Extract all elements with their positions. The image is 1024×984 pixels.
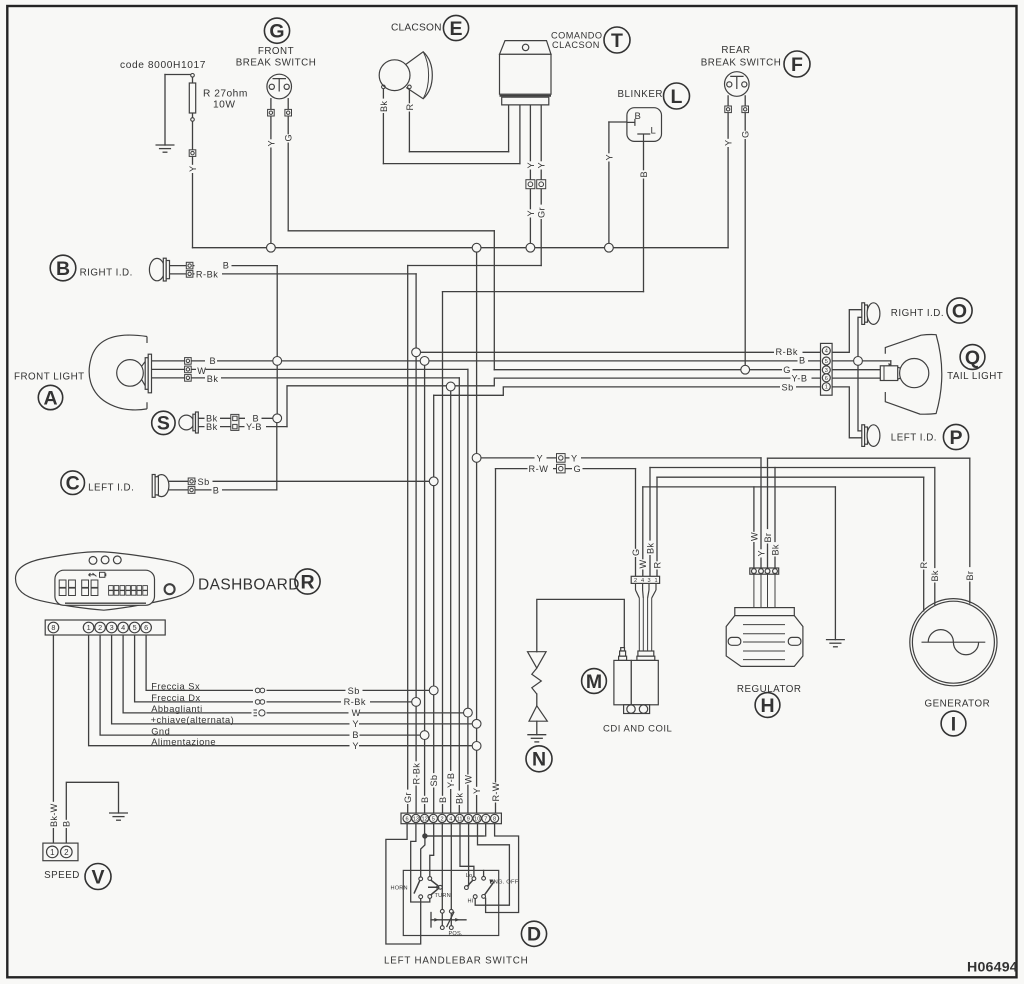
- svg-text:B: B: [223, 261, 230, 271]
- svg-text:Y-B: Y-B: [446, 773, 456, 788]
- svg-text:10W: 10W: [213, 100, 235, 111]
- svg-text:9: 9: [467, 817, 470, 823]
- svg-text:Sb: Sb: [348, 686, 360, 696]
- svg-text:Sb: Sb: [198, 477, 210, 487]
- svg-text:Gr: Gr: [537, 207, 547, 218]
- svg-text:4: 4: [449, 817, 452, 823]
- svg-text:T: T: [611, 30, 623, 52]
- svg-text:1: 1: [825, 385, 828, 391]
- svg-text:RIGHT I.D.: RIGHT I.D.: [80, 267, 133, 278]
- svg-text:10: 10: [474, 817, 480, 823]
- svg-text:Y-B: Y-B: [246, 422, 262, 432]
- svg-text:A: A: [43, 387, 57, 409]
- svg-text:W: W: [749, 532, 759, 541]
- svg-text:Bk-W: Bk-W: [49, 803, 59, 827]
- svg-text:+chiave(alternata): +chiave(alternata): [151, 715, 235, 725]
- svg-text:R: R: [652, 562, 662, 569]
- svg-text:R-Bk: R-Bk: [344, 697, 366, 707]
- svg-text:B: B: [352, 730, 359, 740]
- svg-text:LEFT I.D.: LEFT I.D.: [891, 433, 937, 444]
- svg-text:5: 5: [825, 359, 828, 365]
- svg-text:Freccia Dx: Freccia Dx: [151, 693, 200, 703]
- svg-text:L: L: [651, 126, 657, 137]
- svg-text:Y: Y: [537, 162, 547, 168]
- svg-text:POS.: POS.: [449, 931, 463, 937]
- svg-text:RIGHT I.D.: RIGHT I.D.: [891, 308, 944, 319]
- svg-text:Bk: Bk: [207, 374, 219, 384]
- svg-text:H: H: [760, 695, 774, 717]
- svg-text:LEFT HANDLEBAR SWITCH: LEFT HANDLEBAR SWITCH: [384, 956, 529, 967]
- svg-text:Gr: Gr: [403, 792, 413, 803]
- svg-text:Sb: Sb: [782, 383, 794, 393]
- svg-text:R: R: [919, 562, 929, 569]
- svg-text:Bk: Bk: [770, 544, 780, 555]
- svg-text:Bk: Bk: [930, 570, 940, 581]
- svg-text:R-Bk: R-Bk: [196, 270, 218, 280]
- svg-text:R 27ohm: R 27ohm: [203, 89, 248, 100]
- svg-text:Sb: Sb: [429, 775, 439, 787]
- svg-text:12: 12: [421, 817, 427, 823]
- svg-text:CLACSON: CLACSON: [552, 40, 600, 50]
- svg-text:Abbaglianti: Abbaglianti: [151, 704, 203, 714]
- svg-text:Freccia Sx: Freccia Sx: [151, 682, 200, 692]
- svg-text:Y: Y: [526, 210, 536, 216]
- svg-text:CLACSON: CLACSON: [391, 23, 442, 34]
- svg-text:W: W: [197, 366, 206, 376]
- svg-text:Bk: Bk: [645, 543, 655, 554]
- svg-text:W: W: [352, 708, 361, 718]
- svg-text:D: D: [527, 924, 541, 946]
- svg-text:5: 5: [432, 817, 435, 823]
- svg-text:C: C: [66, 473, 80, 495]
- svg-text:N: N: [532, 749, 546, 771]
- svg-text:Y: Y: [537, 453, 544, 463]
- svg-text:Bk: Bk: [379, 101, 389, 112]
- svg-text:Y: Y: [472, 788, 482, 794]
- svg-text:13: 13: [413, 817, 419, 823]
- svg-text:2: 2: [441, 817, 444, 823]
- svg-text:Y: Y: [724, 140, 734, 146]
- svg-text:S: S: [157, 413, 170, 435]
- svg-text:W: W: [638, 560, 648, 569]
- svg-text:G: G: [269, 21, 284, 43]
- svg-text:F: F: [791, 54, 803, 76]
- svg-text:7: 7: [484, 817, 487, 823]
- svg-text:G: G: [284, 134, 294, 141]
- svg-text:REAR: REAR: [721, 45, 750, 56]
- svg-text:G: G: [741, 131, 751, 138]
- svg-text:Y: Y: [352, 741, 359, 751]
- svg-text:Y: Y: [571, 453, 578, 463]
- svg-text:G: G: [783, 365, 791, 375]
- svg-text:4: 4: [121, 623, 125, 632]
- svg-text:Bk: Bk: [206, 422, 218, 432]
- svg-text:R: R: [405, 104, 415, 111]
- svg-text:2: 2: [98, 623, 102, 632]
- svg-text:3: 3: [110, 623, 114, 632]
- svg-text:G: G: [631, 549, 641, 556]
- svg-text:REGULATOR: REGULATOR: [737, 684, 802, 695]
- svg-text:E: E: [449, 18, 462, 40]
- svg-text:L: L: [671, 86, 683, 108]
- svg-text:P: P: [949, 427, 962, 449]
- svg-text:COMANDO: COMANDO: [551, 31, 602, 41]
- svg-text:code 8000H1017: code 8000H1017: [120, 60, 206, 71]
- svg-text:BLINKER: BLINKER: [618, 89, 663, 100]
- svg-text:R-W: R-W: [529, 464, 549, 474]
- svg-text:4: 4: [641, 578, 644, 584]
- svg-text:Y: Y: [526, 162, 536, 168]
- svg-text:B: B: [56, 258, 70, 280]
- svg-text:O: O: [952, 300, 967, 322]
- svg-text:2: 2: [634, 578, 637, 584]
- svg-text:FRONT: FRONT: [258, 46, 294, 57]
- svg-text:B: B: [213, 486, 220, 496]
- svg-text:4: 4: [825, 349, 828, 355]
- svg-text:B: B: [635, 111, 642, 122]
- svg-text:Y: Y: [756, 550, 766, 556]
- svg-text:R-W: R-W: [491, 782, 501, 801]
- svg-text:R-Bk: R-Bk: [776, 347, 798, 357]
- svg-text:6: 6: [144, 623, 148, 632]
- svg-text:B: B: [420, 797, 430, 803]
- svg-text:5: 5: [133, 623, 137, 632]
- svg-text:FRONT LIGHT: FRONT LIGHT: [14, 372, 85, 383]
- svg-text:W: W: [463, 775, 473, 784]
- svg-text:Y: Y: [604, 154, 614, 160]
- svg-text:Br: Br: [763, 533, 773, 543]
- svg-text:1: 1: [87, 623, 91, 632]
- svg-text:BREAK SWITCH: BREAK SWITCH: [701, 58, 782, 69]
- svg-text:3: 3: [647, 578, 650, 584]
- svg-text:R-Bk: R-Bk: [412, 763, 422, 785]
- svg-text:BREAK SWITCH: BREAK SWITCH: [236, 58, 317, 69]
- svg-text:TURN: TURN: [435, 893, 451, 899]
- svg-text:I: I: [951, 713, 956, 735]
- svg-text:6: 6: [406, 817, 409, 823]
- svg-text:HORN: HORN: [391, 886, 408, 892]
- svg-text:H06494: H06494: [967, 960, 1018, 976]
- svg-text:M: M: [586, 671, 602, 693]
- svg-text:Alimentazione: Alimentazione: [151, 737, 216, 747]
- svg-text:Lo: Lo: [466, 873, 473, 879]
- svg-text:G: G: [574, 464, 582, 474]
- svg-text:TAIL LIGHT: TAIL LIGHT: [947, 371, 1003, 382]
- svg-text:Y: Y: [352, 719, 359, 729]
- svg-text:1: 1: [654, 578, 657, 584]
- svg-text:B: B: [62, 821, 72, 827]
- svg-text:SPEED: SPEED: [44, 870, 80, 881]
- svg-text:B: B: [438, 797, 448, 803]
- svg-text:Gnd: Gnd: [151, 726, 170, 736]
- svg-text:2: 2: [64, 848, 69, 857]
- svg-text:Bk: Bk: [455, 793, 465, 804]
- svg-text:R: R: [300, 571, 314, 593]
- svg-text:Y: Y: [188, 166, 198, 172]
- svg-text:8: 8: [51, 623, 55, 632]
- svg-text:3: 3: [825, 368, 828, 374]
- svg-text:Y: Y: [266, 140, 276, 146]
- svg-text:6: 6: [825, 376, 828, 382]
- svg-text:B: B: [799, 356, 806, 366]
- svg-text:11: 11: [457, 817, 463, 823]
- svg-text:Y-B: Y-B: [792, 373, 808, 383]
- svg-text:1: 1: [50, 848, 55, 857]
- svg-text:B: B: [639, 171, 649, 177]
- svg-text:CDI AND COIL: CDI AND COIL: [603, 724, 672, 735]
- svg-text:Br: Br: [965, 571, 975, 581]
- svg-text:HI: HI: [468, 899, 474, 905]
- svg-text:LEFT I.D.: LEFT I.D.: [88, 483, 134, 494]
- svg-text:B: B: [210, 356, 217, 366]
- svg-text:DASHBOARD: DASHBOARD: [198, 577, 300, 594]
- svg-text:ENG. OFF: ENG. OFF: [490, 880, 519, 886]
- svg-text:8: 8: [493, 817, 496, 823]
- svg-text:GENERATOR: GENERATOR: [925, 699, 991, 710]
- svg-text:V: V: [91, 866, 104, 888]
- svg-text:Q: Q: [965, 347, 980, 369]
